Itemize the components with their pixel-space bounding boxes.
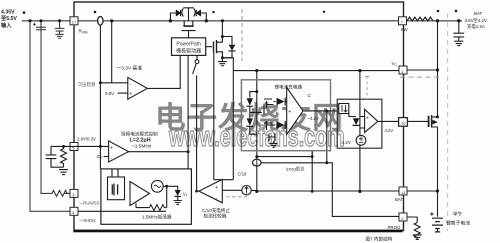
crystal box X1: [108, 177, 125, 200]
diode D1a arrow: [176, 10, 180, 15]
op-amp A6: [365, 109, 378, 132]
ground G4: [174, 196, 182, 204]
diode D4 arrow: [277, 98, 285, 105]
svg-text:+: +: [288, 110, 291, 116]
junction dots center bus: [255, 69, 258, 72]
svg-text:BAT: BAT: [395, 197, 404, 202]
ground G1: [55, 34, 63, 38]
transistor Q2 gate bar: [213, 42, 215, 53]
wires inside B2: [349, 114, 365, 129]
wire ITH pin to comparator: [51, 145, 109, 147]
svg-text:+: +: [215, 185, 218, 191]
wire feedback vertical right lower: [437, 127, 439, 217]
gate structure below rail: [184, 21, 193, 26]
gate driver block U1: [172, 38, 206, 56]
pin box P1 VIN: [70, 17, 78, 25]
svg-text:充电1.5A: 充电1.5A: [467, 23, 485, 30]
svg-text:图7 内部结构: 图7 内部结构: [366, 235, 393, 242]
svg-text:欠压检测: 欠压检测: [78, 81, 95, 88]
wires diode to error amp: [274, 102, 287, 126]
svg-text:+: +: [129, 92, 132, 98]
label dot 5: [437, 10, 440, 13]
bottom transistor glyph: [269, 133, 275, 143]
wire VIN rail left: [22, 20, 70, 22]
dashed stub comp2 lower input: [226, 196, 247, 198]
wire osc to junction: [163, 186, 178, 189]
arrow Q3 body: [432, 120, 438, 125]
current source circle C10: [242, 186, 251, 195]
zener D3 arrow: [175, 190, 181, 196]
wire input branch B down to resistor and pin: [41, 21, 50, 194]
wire sense down to opamp and osc block: [99, 25, 101, 169]
junction dot R2 top: [62, 145, 65, 148]
label dot 1: [23, 11, 26, 14]
oscillator circle: [151, 180, 163, 192]
reference circle 4.2V: [356, 135, 366, 145]
diode D5 arrow: [277, 121, 285, 128]
junction dot Q2 source: [221, 56, 224, 59]
diode stack wires: [250, 106, 262, 134]
svg-text:+: +: [366, 115, 369, 121]
wire bias tap 1: [257, 151, 312, 157]
wire input branch A down to RUN pin: [30, 21, 70, 212]
pin box P6 ITH: [70, 143, 78, 151]
comparator A2 inv stub: [104, 156, 109, 158]
wire P4 to battery node: [407, 190, 438, 192]
svg-text:—RUN/SS: —RUN/SS: [79, 201, 100, 206]
op-amp A1 output wire: [147, 55, 180, 88]
comparator A4 input to current circle: [222, 189, 241, 191]
pin box P8 SHDN: [70, 207, 78, 215]
switch SW1: [196, 55, 198, 59]
dashed boundary line near Q2: [241, 9, 243, 61]
transistor Q2 source stub: [217, 52, 223, 58]
svg-text:VC: VC: [392, 61, 398, 67]
svg-text:栅极驱动器: 栅极驱动器: [176, 47, 201, 54]
pin box P9 SENSE: [399, 118, 408, 127]
op-amp A6 output to pin P9: [378, 120, 399, 122]
diode D5 bar: [284, 121, 286, 129]
svg-text:2.9V/0.3V: 2.9V/0.3V: [77, 136, 96, 141]
pin box P3 VC: [399, 66, 407, 74]
pin box P5 PROG: [399, 213, 407, 221]
ground G5: [270, 144, 278, 148]
wire P3 to feedback node: [407, 69, 438, 71]
svg-text:3.8V至4.2V: 3.8V至4.2V: [465, 18, 488, 23]
diode stack bars: [246, 106, 253, 126]
junction dot Q1 left: [169, 19, 172, 22]
svg-text:V₂: V₂: [183, 191, 188, 196]
ground G7 PROG: [413, 235, 422, 240]
wire B1 to BAT line: [311, 151, 313, 191]
wire comp2 top to center bus: [214, 179, 234, 181]
gate driver text: [176, 41, 201, 54]
junction dot PWM join: [187, 150, 190, 153]
svg-text:SW: SW: [401, 27, 409, 32]
transistor Q1 PMOS pair right stub: [200, 13, 206, 21]
oscillator block box B3: [101, 169, 191, 224]
crystal glyph: [112, 184, 117, 196]
svg-text:17: 17: [72, 20, 77, 25]
svg-text:IC₁—: IC₁—: [97, 154, 108, 159]
wire Q1 common top bar: [183, 8, 193, 21]
wire opamp bottom input stub: [118, 92, 128, 94]
svg-text:锂电池充电器: 锂电池充电器: [275, 84, 303, 91]
wire PWM to gate driver: [187, 55, 189, 168]
gate line: [181, 31, 195, 38]
error amp output: [303, 110, 337, 112]
wire resistor to pin P7: [65, 192, 71, 194]
error amp A5: [287, 87, 303, 134]
comparator A4 (points left): [199, 179, 222, 202]
wire mirror feed vertical: [359, 71, 361, 191]
label dot 6: [455, 10, 458, 13]
junction dot SW node: [436, 19, 439, 22]
capacitor C3: [46, 146, 64, 167]
svg-text:至5.5V: 至5.5V: [1, 14, 17, 22]
plus sign C1: [33, 23, 36, 26]
inductor L1: [407, 17, 433, 21]
current sense ellipse on rail: [98, 17, 103, 26]
junction dot Q2 drain: [221, 35, 224, 38]
svg-text:4.2V: 4.2V: [342, 140, 352, 145]
svg-text:L=2.2μH: L=2.2μH: [130, 138, 151, 144]
diode D6 bar: [352, 124, 359, 126]
wire bias tap 2 to PROG pin: [261, 163, 399, 217]
wire switch down to comparator: [196, 76, 198, 192]
pin box P2 SW: [399, 17, 407, 25]
svg-text:-: -: [111, 156, 113, 162]
watermark Chinese: 电子发烧友网: [155, 93, 369, 137]
wire center vertical bus: [256, 71, 258, 191]
charge amp block box B2: [337, 99, 382, 148]
ground G3: [59, 170, 68, 175]
IC bottom thick border: [73, 230, 402, 233]
charger block box B1: [241, 80, 330, 151]
dashed stub into B2: [366, 76, 368, 100]
resistor R1: [50, 190, 69, 196]
wire VC horizontal: [233, 70, 399, 72]
comparator A4 output wire to switch line: [197, 190, 199, 192]
diode D1a body: [176, 10, 180, 16]
svg-text:锂离子电池: 锂离子电池: [446, 220, 470, 227]
junction dot VC feedback: [436, 68, 439, 71]
wire rail branch to opamp top input: [111, 21, 113, 83]
diode D2 ties: [222, 37, 232, 58]
ground G2 under Q2: [218, 58, 227, 66]
svg-text:~4.2V: ~4.2V: [308, 116, 319, 121]
junction node rail C: [58, 19, 61, 22]
wire error amp out down: [326, 111, 328, 163]
svg-text:一3.3V 基准: 一3.3V 基准: [117, 64, 143, 71]
svg-text:Iprog限流: Iprog限流: [286, 165, 305, 172]
svg-text:PowerPath: PowerPath: [176, 41, 201, 47]
svg-text:1.5MHz振荡器: 1.5MHz振荡器: [142, 213, 172, 220]
transistor Q1 PMOS pair left stub: [170, 13, 176, 21]
label dot 3: [212, 11, 214, 13]
svg-text:+: +: [110, 145, 113, 151]
transistor Q3 external pass FET: [407, 120, 428, 122]
label dot 4: [323, 11, 325, 13]
junction dot sense line crossing ITH: [99, 145, 102, 148]
junction dot output cap: [457, 19, 460, 22]
junction dot battery: [436, 189, 439, 192]
watermark url: www.elecfans.com: [169, 121, 345, 154]
svg-text:恒频电流模式控制: 恒频电流模式控制: [121, 130, 158, 137]
junction node rail D: [110, 19, 113, 22]
svg-text:10: 10: [401, 121, 406, 126]
svg-text:C/10: C/10: [238, 172, 248, 177]
svg-text:单节: 单节: [453, 211, 462, 218]
svg-text:C: C: [308, 93, 312, 98]
op-amp A1: [128, 77, 148, 99]
wire Q2 source to VC node: [222, 58, 233, 71]
transistor Q1 channel curls: [182, 9, 195, 17]
svg-text:PROG: PROG: [388, 225, 402, 230]
diode D1b body: [196, 10, 200, 16]
capacitor C2 input: [55, 21, 64, 34]
svg-text:-: -: [130, 81, 132, 87]
plus sign battery: [430, 212, 433, 215]
current source circle center: [252, 159, 261, 166]
svg-text:=1.5MHz: =1.5MHz: [132, 144, 152, 150]
wire SW rail to inductor and output: [407, 20, 463, 22]
dashed optional wire at VC: [400, 76, 443, 78]
svg-text:0.8V: 0.8V: [105, 91, 114, 96]
diode stack arrow 1: [247, 98, 253, 105]
transistor Q2 channel bar: [216, 40, 218, 53]
wire gate monitor vertical: [213, 52, 215, 180]
resistor R4 PROG: [414, 223, 420, 240]
junction dot Q1 right: [205, 19, 208, 22]
diode D2 arrow: [229, 45, 236, 51]
junction node rail A: [28, 19, 31, 22]
gate plate bar: [183, 25, 193, 27]
comparator A2: [109, 141, 129, 162]
diode D4 bar: [284, 98, 286, 106]
pin box P4 BAT: [399, 187, 407, 195]
label dot 2: [94, 11, 97, 14]
pin box P7 RUN: [70, 189, 78, 197]
comparator A2 output: [129, 151, 189, 153]
wire to opamp top input: [100, 82, 127, 84]
IC outline: [74, 2, 404, 231]
wire into diode stack: [250, 92, 257, 98]
diode D6 arrow: [353, 118, 360, 125]
diode D1b arrow: [196, 10, 200, 15]
svg-text:输入: 输入: [1, 21, 12, 29]
junction dot Q3 drain: [436, 115, 439, 118]
wire U1 to Q2 gate: [206, 46, 213, 48]
junction dot opamp top input feed: [99, 81, 102, 84]
diode stack arrow 2: [247, 118, 253, 125]
resistor R2: [61, 146, 67, 167]
svg-text:-: -: [216, 196, 218, 202]
dashed boundary vertical right: [447, 13, 449, 231]
svg-text:4.35V: 4.35V: [1, 10, 15, 16]
svg-text:—SHDN: —SHDN: [79, 218, 95, 223]
wire VIN rail inside IC: [78, 20, 399, 22]
svg-text:-: -: [289, 95, 291, 101]
svg-text:BAT: BAT: [474, 11, 483, 16]
svg-text:-: -: [367, 127, 369, 133]
op-amp A3: [130, 182, 150, 206]
capacitor C4 output: [453, 21, 464, 41]
wire charge line to BAT pin: [251, 190, 399, 193]
zener D3 bar: [174, 195, 181, 197]
wire Q2 drain to rail: [221, 21, 223, 37]
transistor Q2 drain stub: [217, 37, 223, 43]
junction dot Q2 rail: [221, 19, 224, 22]
wire feedback vertical right upper: [437, 21, 439, 117]
wire PROG pin to resistor: [407, 217, 417, 223]
battery BT1: [432, 218, 443, 232]
mosfet M3 glyphs: [264, 99, 274, 130]
feedback wire and resistor R3: [78, 186, 167, 211]
junction node rail B: [39, 19, 42, 22]
mirror box: [339, 104, 349, 114]
svg-text:检测比较器: 检测比较器: [204, 213, 227, 220]
junction dot osc out: [165, 185, 168, 188]
diode D2 bar: [229, 50, 236, 52]
capacitor C1 input: [36, 27, 46, 30]
ground G6: [454, 41, 463, 45]
svg-text:RVIN: RVIN: [79, 29, 89, 35]
wire center-left vertical bus: [232, 71, 234, 180]
svg-text:4.2V: 4.2V: [385, 128, 394, 133]
